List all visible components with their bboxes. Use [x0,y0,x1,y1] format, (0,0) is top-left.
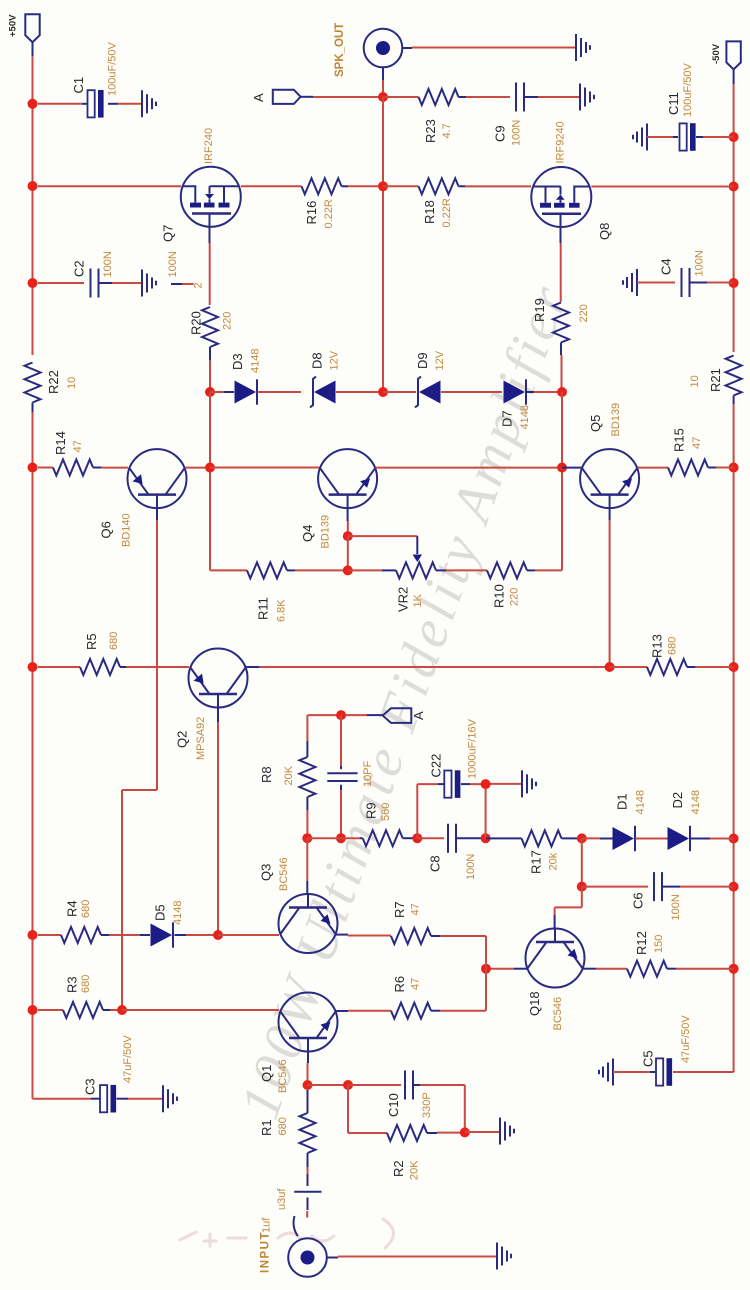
svg-text:100N: 100N [670,894,682,920]
svg-text:47: 47 [691,437,703,449]
wire SPK_OUT to ground [412,47,576,49]
svg-text:+50V: +50V [7,14,18,37]
capacitor C4 [623,250,734,297]
svg-text:4148: 4148 [635,790,647,814]
svg-text:A: A [251,93,266,102]
wire -50V rail upper [733,84,735,352]
svg-text:R12: R12 [634,931,649,955]
wire +50V rail upper [32,56,34,355]
mosfet Q8 IRF9240 [531,121,612,240]
svg-text:A: A [411,711,426,720]
resistor R5 [38,632,189,675]
svg-text:BC546: BC546 [277,1059,289,1093]
capacitor C9 [493,83,581,147]
svg-text:R13: R13 [650,634,665,658]
resistor R16 [241,178,383,228]
node Q18 base row [481,964,491,974]
resistor R8 [259,715,315,838]
svg-text:220: 220 [222,312,234,330]
svg-text:4148: 4148 [250,349,262,373]
wire base row [308,1084,349,1086]
svg-text:100N: 100N [511,120,523,146]
svg-text:Q4: Q4 [300,525,315,542]
zener D8 12V [258,350,384,407]
svg-text:Q1: Q1 [259,1065,274,1082]
svg-text:R6: R6 [392,976,407,993]
svg-text:4148: 4148 [172,901,184,925]
svg-text:6.8K: 6.8K [276,599,288,622]
resistor R17 [486,830,582,874]
wire Q4 base lead [347,508,349,536]
svg-text:BC546: BC546 [278,857,290,891]
svg-text:D3: D3 [230,353,245,370]
svg-text:10PF: 10PF [362,760,374,787]
svg-text:47uF/50V: 47uF/50V [680,1015,692,1063]
capacitor C2 [38,251,142,297]
resistor R10 [446,562,535,608]
svg-text:47: 47 [409,978,421,990]
svg-text:C4: C4 [659,258,674,275]
svg-text:47: 47 [409,903,421,915]
watermark text [229,275,582,1126]
resistor R9 [360,802,417,846]
wire Q4 base to VR2 row [347,536,349,570]
resistor R23 [383,89,510,143]
wire node to Q5 base [562,467,582,469]
svg-text:R19: R19 [532,298,547,322]
wire A to node [313,96,383,98]
svg-text:INPUT: INPUT [260,1231,272,1273]
wire left rail lower [33,412,92,1099]
wire Q6 to node [185,467,210,469]
svg-text:10: 10 [689,375,701,387]
node C8 right [481,833,491,843]
svg-text:Q3: Q3 [259,864,274,881]
wire Q1 base lead [307,1052,310,1086]
resistor R11 [247,562,348,622]
svg-text:R17: R17 [528,850,543,874]
ground (INPUT) [497,1243,511,1270]
svg-text:680: 680 [277,1117,289,1135]
diode D5 4148 [140,901,218,948]
stray 100N fragment pin 2 [167,251,205,288]
node A junction [336,710,346,720]
capacitor C11 [633,63,734,151]
svg-text:D8: D8 [310,352,325,369]
svg-text:220: 220 [509,588,521,606]
node D5 cathode [213,930,223,940]
capacitor C10 330P [348,1071,465,1133]
wire Q5 emitter column [609,508,611,667]
node R3 right [117,1005,127,1015]
node Q4 base [343,531,353,541]
resistor R4 [38,900,140,943]
svg-text:2: 2 [193,282,205,288]
node Q4-Q5 [557,463,567,473]
svg-text:R1: R1 [259,1119,274,1136]
svg-text:R21: R21 [708,368,723,392]
svg-text:680: 680 [80,900,92,918]
wire Q2 collector row [246,666,610,668]
wire node A column [382,97,384,392]
svg-text:1uf: 1uf [261,1217,273,1233]
svg-text:4.7: 4.7 [441,123,453,138]
wire SPK_OUT stem [382,67,384,97]
resistor R14 [38,431,128,475]
svg-text:100N: 100N [167,251,179,277]
svg-text:MPSA92: MPSA92 [195,717,207,760]
wire Q6 collector column [122,508,157,1010]
wire node to Q4 [210,467,319,469]
wire column x562 [535,392,562,570]
node Q6-Q4 [205,463,215,473]
node C6 left [577,882,587,892]
resistor R2 [348,1085,465,1180]
svg-text:100uF/50V: 100uF/50V [682,63,694,117]
svg-text:20K: 20K [283,765,295,785]
resistor R15 [638,428,734,475]
transistor Q2 MPSA92 [175,649,248,761]
svg-text:u3uf: u3uf [276,1188,288,1210]
svg-text:20K: 20K [409,1160,421,1180]
node dots right rail [729,132,739,974]
svg-text:D9: D9 [415,352,430,369]
svg-text:4148: 4148 [519,405,531,429]
svg-text:100uF/50V: 100uF/50V [107,42,119,96]
wire input to ground [338,1256,497,1258]
svg-text:R18: R18 [422,200,437,224]
wire Q8 gate lead [560,227,562,302]
svg-text:Q8: Q8 [597,223,612,240]
svg-text:Q7: Q7 [161,225,176,242]
wire R9 row left [307,837,360,839]
resistor R22 [25,363,79,413]
transistor Q3 BC546 [259,857,338,953]
ground (C1) [142,90,156,117]
svg-text:BD140: BD140 [121,513,133,547]
wire Q8 to -rail [591,186,733,188]
svg-text:C11: C11 [666,92,681,115]
svg-text:C6: C6 [631,892,646,909]
svg-text:330P: 330P [421,1092,433,1118]
svg-text:R20: R20 [189,311,204,335]
node C8 left [412,833,422,843]
ground (C9) [580,84,594,111]
resistor R20 [189,307,234,392]
node R13 left [605,662,615,672]
wire input curve [294,1216,298,1236]
svg-text:R22: R22 [46,370,61,394]
node R9 left [302,833,346,843]
svg-text:R15: R15 [672,428,687,452]
svg-text:D2: D2 [670,792,685,809]
ground (SPK_OUT) [576,34,590,61]
wire right rail lower [673,404,734,1072]
resistor R13 [610,634,734,675]
node R17 right [577,833,587,843]
wire node A row [307,714,367,716]
transistor Q18 BC546 [526,929,585,1031]
resistor R7 [336,901,486,968]
svg-text:Q2: Q2 [175,731,190,748]
svg-text:0.22R: 0.22R [441,198,453,227]
wire Q7 gate lead [209,227,211,305]
svg-text:12V: 12V [434,350,446,370]
node R2-C10 [460,1127,470,1137]
svg-text:D1: D1 [615,793,630,810]
svg-text:560: 560 [380,803,392,821]
diode D2 4148 [636,790,734,851]
svg-text:R8: R8 [259,766,274,783]
svg-text:VR2: VR2 [396,587,411,612]
potentiometer VR2 1K [348,562,446,612]
svg-text:R9: R9 [363,802,378,819]
resistor R18 [383,178,531,227]
svg-text:680: 680 [80,975,92,993]
power flag +50V [7,14,39,56]
svg-text:100N: 100N [465,854,477,880]
resistor R12 [583,931,734,977]
wire Q18 base link [555,887,582,929]
svg-text:100N: 100N [102,251,114,277]
svg-text:680: 680 [667,637,679,655]
resistor R3 [38,975,122,1018]
svg-text:BC546: BC546 [552,997,564,1031]
svg-text:IRF240: IRF240 [203,128,215,164]
svg-text:C5: C5 [641,1050,656,1067]
diode D7 4148 [500,379,563,429]
node gate row left [205,387,215,397]
svg-text:220: 220 [578,304,590,322]
watermark bottom fragments [180,1219,394,1248]
wire node to Q1 [122,1009,279,1011]
svg-text:BD139: BD139 [610,403,622,437]
diode D1 4148 [582,790,647,851]
svg-text:R14: R14 [53,431,68,455]
svg-text:BD139: BD139 [319,515,331,549]
wire node to Q3 [218,934,279,936]
zener D9 12V [383,350,502,407]
wire Q2 base column [217,708,219,936]
svg-text:680: 680 [108,632,120,650]
wire +rail to Q7 [38,185,181,187]
net flag A (mid) [367,708,426,723]
svg-text:R23: R23 [423,119,438,143]
svg-text:C1: C1 [71,77,86,94]
svg-text:100N: 100N [694,250,706,276]
svg-text:R2: R2 [391,1160,406,1177]
svg-text:20k: 20k [548,852,560,870]
transistor Q1 BC546 [259,993,338,1094]
transistor Q4 BD139 [300,449,377,548]
capacitor C22 [417,718,522,838]
transistor Q5 BD139 [580,403,639,508]
svg-text:47: 47 [72,440,84,452]
diode D3 4148 [210,349,262,405]
svg-text:4148: 4148 [690,790,702,814]
capacitor C3 [83,1035,164,1113]
svg-text:R4: R4 [65,900,80,917]
node zener center [378,387,388,397]
capacitor C6 [582,872,734,920]
capacitor C1 [38,42,142,118]
svg-text:1000uF/16V: 1000uF/16V [467,718,479,779]
wire R17 node down [581,838,583,886]
svg-text:SPK_OUT: SPK_OUT [334,23,346,77]
ground (C2) [142,270,156,297]
net flag A (top) [251,90,313,104]
svg-text:-50V: -50V [711,43,722,64]
svg-text:C8: C8 [428,855,443,872]
svg-text:10: 10 [66,377,78,389]
wire Q3 base up [306,838,308,894]
svg-text:C3: C3 [83,1078,98,1095]
svg-text:C2: C2 [72,260,87,277]
svg-text:D7: D7 [500,410,515,427]
svg-text:R11: R11 [256,597,271,620]
wire VR2 wiper [348,536,422,562]
wire Q18 left [486,968,527,970]
svg-text:IRF9240: IRF9240 [555,121,567,163]
capacitor C8 [417,824,486,880]
svg-text:Q5: Q5 [588,415,603,432]
svg-text:R7: R7 [392,901,407,918]
node SPK junction [378,92,388,102]
wire column x210 [210,392,247,570]
wire to ground [465,1131,500,1133]
terminal INPUT [260,1217,339,1277]
capacitor 1uF input [276,1188,322,1218]
svg-text:R5: R5 [84,633,99,650]
node Q1 base [303,1080,313,1090]
node C22 right [481,779,491,789]
svg-text:150: 150 [653,935,665,953]
transistor Q6 BD140 [99,449,187,547]
svg-text:D5: D5 [153,904,168,921]
resistor R6 [336,969,486,1019]
svg-text:Q18: Q18 [527,991,542,1016]
svg-text:C22: C22 [429,754,444,778]
resistor R21 [689,356,742,405]
resistor R19 [532,298,590,392]
svg-text:1K: 1K [412,593,424,607]
wire Q4 to node [376,467,562,469]
node mid rail [378,181,388,191]
power flag -50V [711,41,741,84]
capacitor 10PF [327,715,374,838]
ground (R2/C10) [500,1118,514,1145]
node VR2 left [343,565,353,575]
svg-text:0.22R: 0.22R [323,199,335,228]
capacitor C5 [599,1015,734,1086]
svg-text:R3: R3 [65,976,80,993]
svg-text:C10: C10 [386,1093,401,1117]
terminal SPK_OUT [334,23,412,77]
svg-text:Q6: Q6 [99,521,114,538]
svg-text:R16: R16 [304,201,319,225]
svg-text:C9: C9 [493,125,508,142]
svg-text:R10: R10 [492,584,507,608]
node dots left rail [28,99,38,1015]
svg-text:47uF/50V: 47uF/50V [122,1035,134,1083]
node C10 branch [343,1080,353,1090]
ground (C3) [163,1085,177,1112]
svg-text:12V: 12V [329,350,341,370]
node gate row right [557,387,567,397]
resistor R1 [259,1090,316,1186]
mosfet Q7 IRF240 [161,128,241,242]
ground (C22) [522,770,536,797]
